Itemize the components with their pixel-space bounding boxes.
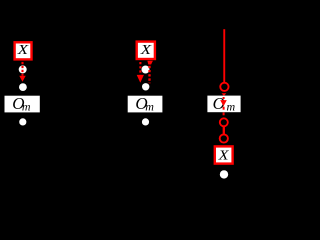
svg-text:m: m [227,99,236,113]
dashed arrow X2 left branch (head) [137,75,144,83]
node N1c (white circle under Om1) [19,118,26,125]
node C3a (open red circle on wire) [220,83,228,91]
dashed arrow X2 right branch (thick start) [147,61,153,65]
node N2a (white circle under X2) [142,66,150,74]
dashed arrow Om3 -> chain (dash inside box) [223,107,225,110]
svg-text:X: X [140,43,152,58]
node N2b (white circle) [142,83,149,90]
dashed arrow X1 -> N1b (head) [19,76,25,82]
intervention box X1 [15,42,32,59]
observation box Om1 [5,94,40,114]
node N1b (white circle) [19,83,27,91]
svg-text:m: m [145,100,154,114]
dashed arrow X1 -> N1b (shaft) [21,62,23,76]
dashed arrow inside Om3 (head) [220,100,227,106]
observation box Om2 [128,94,163,114]
dashed arrow inside Om3 (dash) [223,97,225,99]
node C3b (open red circle) [220,118,228,126]
svg-text:X: X [17,43,29,58]
dashed arrow X2 right branch (shaft) [148,66,150,83]
wire C3b -> C3c [223,127,225,135]
dashed arrow X2 left branch (shaft) [139,62,141,75]
dashed arrow Om3 -> chain (dash below box) [223,113,225,116]
arrowhead into Om3 (small) [222,93,227,96]
observation box Om3 [207,94,240,114]
intervention box X2 [137,42,155,59]
node N3 (white circle under X3) [220,170,228,178]
svg-text:X: X [217,148,229,163]
wire (long solid red line from top) [223,29,225,82]
node N2c (white circle under Om2) [142,118,149,125]
svg-text:m: m [22,99,31,113]
node N1a (white circle under X1) [19,65,27,73]
intervention box X3 [215,146,233,163]
node C3c (open red circle) [220,134,228,142]
